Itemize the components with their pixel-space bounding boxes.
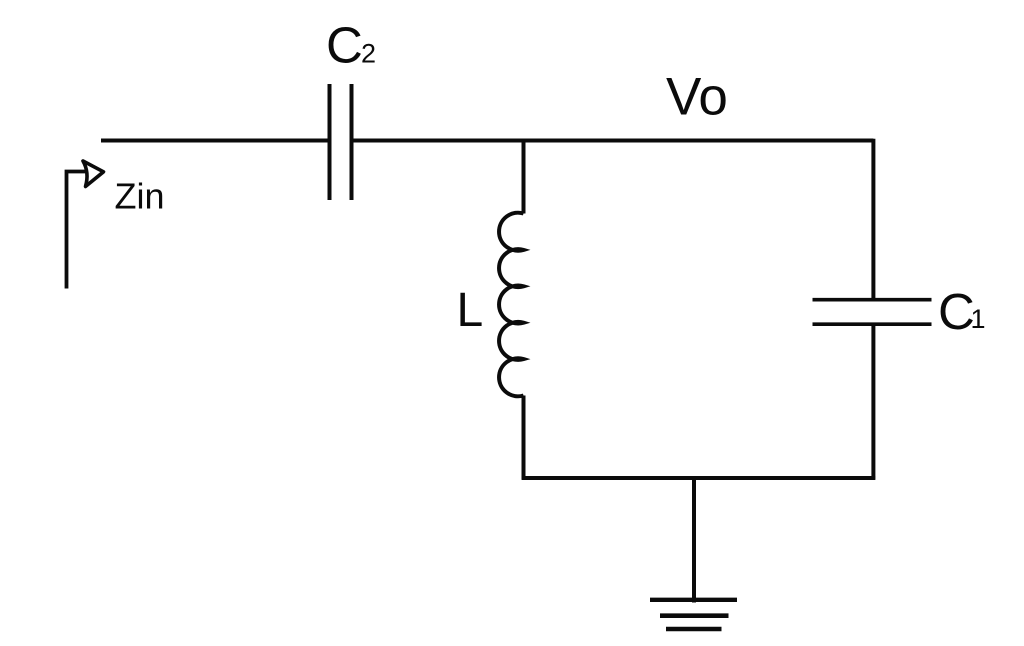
label L [457, 284, 484, 337]
wire right branch top, corner down to capacitor C1 [871, 139, 875, 299]
svg-text:Vo: Vo [666, 68, 728, 127]
node Vo : wire from L junction to top-right corner [522, 139, 874, 143]
wire right branch bottom, from C1 down to bottom rail [871, 326, 875, 480]
label Vo [666, 68, 728, 127]
capacitor C2 [330, 84, 352, 200]
ground (stem and three bars) [650, 478, 737, 629]
svg-text:L: L [457, 284, 484, 337]
wire bottom rail from L to right corner [522, 476, 876, 480]
capacitor C1 [813, 300, 932, 325]
svg-text:C: C [938, 283, 975, 340]
wire input lead from Zin to capacitor C2 [101, 139, 328, 143]
label Zin [115, 176, 165, 217]
label C2 [326, 17, 376, 74]
wire from C2 right plate to node Vo junction with L [354, 139, 524, 143]
svg-text:C: C [326, 17, 363, 74]
svg-text:1: 1 [971, 304, 986, 334]
label C1 [938, 283, 986, 340]
svg-text:2: 2 [361, 39, 376, 69]
Zin measurement arrow (vertical line, horizontal line, open arrowhead) [67, 161, 104, 289]
inductor L (top lead, 5-turn coil, bottom lead) [499, 139, 523, 480]
svg-text:Zin: Zin [115, 176, 165, 217]
